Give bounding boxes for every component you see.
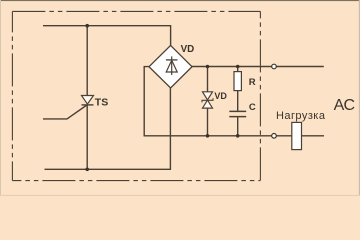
svg-text:AC: AC bbox=[334, 97, 355, 114]
svg-text:VD: VD bbox=[214, 91, 227, 101]
svg-text:TS: TS bbox=[95, 96, 108, 108]
svg-text:C: C bbox=[249, 102, 256, 113]
svg-text:Нагрузка: Нагрузка bbox=[276, 110, 326, 122]
svg-text:VD: VD bbox=[181, 44, 195, 55]
svg-text:R: R bbox=[249, 77, 256, 88]
